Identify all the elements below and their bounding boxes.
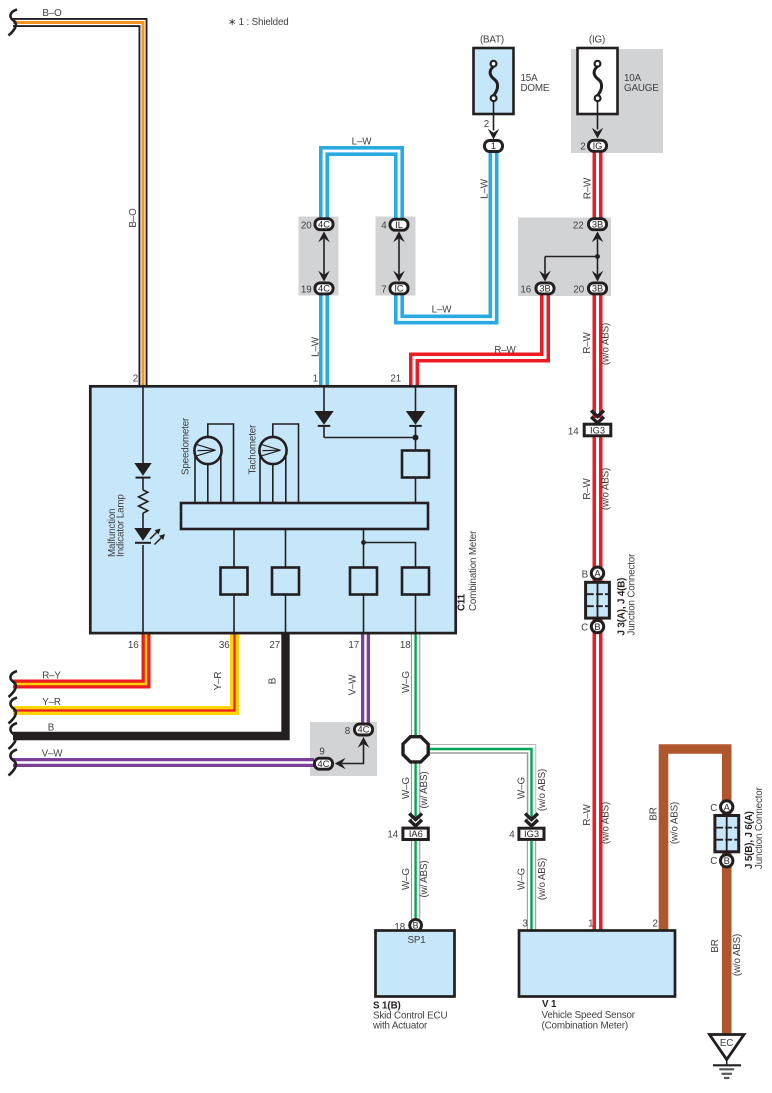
svg-text:14: 14 — [387, 830, 398, 841]
svg-text:L–W: L–W — [311, 336, 322, 357]
svg-text:B: B — [48, 723, 55, 734]
svg-text:∗ 1 : Shielded: ∗ 1 : Shielded — [228, 17, 289, 28]
svg-text:3B: 3B — [592, 284, 603, 294]
svg-text:Combination Meter: Combination Meter — [468, 530, 479, 611]
svg-text:Indicator Lamp: Indicator Lamp — [116, 494, 127, 557]
svg-text:A: A — [724, 802, 731, 812]
svg-text:IA6: IA6 — [409, 829, 423, 839]
svg-text:IC: IC — [394, 284, 404, 294]
svg-text:DOME: DOME — [521, 83, 550, 94]
svg-text:3B: 3B — [539, 284, 550, 294]
svg-text:Y–R: Y–R — [213, 672, 224, 691]
svg-text:C11: C11 — [457, 593, 468, 611]
svg-text:21: 21 — [390, 374, 401, 385]
svg-text:20: 20 — [301, 220, 312, 231]
svg-text:(Combination Meter): (Combination Meter) — [542, 1021, 628, 1032]
svg-text:(BAT): (BAT) — [480, 35, 504, 46]
svg-text:B: B — [582, 569, 589, 580]
svg-text:R–W: R–W — [582, 477, 593, 499]
svg-text:B–O: B–O — [42, 8, 62, 19]
svg-text:IG: IG — [593, 141, 603, 151]
svg-text:7: 7 — [381, 285, 386, 296]
svg-text:SP1: SP1 — [407, 935, 425, 946]
svg-text:4C: 4C — [318, 219, 330, 229]
svg-text:2: 2 — [652, 919, 657, 930]
svg-text:(w/ ABS): (w/ ABS) — [419, 772, 430, 809]
svg-text:36: 36 — [219, 640, 230, 651]
svg-text:4: 4 — [509, 830, 515, 841]
svg-text:1: 1 — [313, 374, 318, 385]
svg-text:B: B — [724, 856, 730, 866]
svg-text:1: 1 — [588, 919, 593, 930]
svg-text:L–W: L–W — [352, 137, 373, 148]
svg-text:R–Y: R–Y — [42, 671, 61, 682]
svg-text:GAUGE: GAUGE — [624, 83, 659, 94]
svg-text:27: 27 — [269, 640, 280, 651]
svg-text:R–W: R–W — [582, 803, 593, 825]
svg-text:L–W: L–W — [480, 178, 491, 199]
svg-text:3B: 3B — [592, 219, 603, 229]
svg-text:9: 9 — [319, 747, 324, 758]
svg-text:W–G: W–G — [401, 671, 412, 693]
svg-text:L–W: L–W — [432, 305, 453, 316]
svg-text:3: 3 — [522, 919, 528, 930]
svg-text:C: C — [710, 856, 717, 867]
svg-text:B: B — [268, 677, 279, 684]
svg-text:1: 1 — [491, 141, 496, 151]
svg-text:20: 20 — [573, 285, 584, 296]
svg-text:2: 2 — [133, 374, 138, 385]
svg-text:Speedometer: Speedometer — [181, 417, 192, 475]
svg-text:R–W: R–W — [494, 345, 516, 356]
svg-text:Y–R: Y–R — [42, 697, 61, 708]
svg-text:B: B — [413, 921, 419, 931]
svg-text:IG3: IG3 — [590, 425, 605, 435]
svg-text:19: 19 — [301, 285, 312, 296]
svg-text:Vehicle Speed Sensor: Vehicle Speed Sensor — [542, 1010, 636, 1021]
svg-text:2: 2 — [484, 119, 489, 130]
svg-text:16: 16 — [128, 640, 139, 651]
svg-text:IG3: IG3 — [524, 829, 539, 839]
svg-text:(IG): (IG) — [589, 35, 605, 46]
svg-text:W–G: W–G — [401, 868, 412, 890]
svg-text:B–O: B–O — [128, 208, 139, 228]
svg-text:EC: EC — [720, 1038, 733, 1049]
svg-text:R–W: R–W — [582, 331, 593, 353]
svg-text:4C: 4C — [318, 284, 330, 294]
svg-text:4C: 4C — [318, 759, 330, 769]
svg-text:Junction Connector: Junction Connector — [754, 786, 765, 869]
svg-text:18: 18 — [400, 640, 411, 651]
svg-text:W–G: W–G — [517, 777, 528, 799]
svg-text:4: 4 — [381, 221, 387, 232]
svg-text:(w/o ABS): (w/o ABS) — [732, 934, 743, 976]
svg-text:16: 16 — [520, 285, 531, 296]
svg-text:V–W: V–W — [42, 749, 64, 760]
svg-text:A: A — [594, 569, 601, 579]
svg-text:W–G: W–G — [517, 868, 528, 890]
svg-text:C: C — [581, 623, 588, 634]
svg-text:14: 14 — [568, 427, 579, 438]
svg-text:BR: BR — [649, 807, 660, 820]
svg-text:(w/o ABS): (w/o ABS) — [670, 802, 681, 844]
svg-text:(w/o ABS): (w/o ABS) — [601, 802, 612, 844]
svg-text:4C: 4C — [358, 725, 370, 735]
svg-text:V–W: V–W — [348, 674, 359, 696]
svg-text:(w/o ABS): (w/o ABS) — [537, 769, 548, 811]
svg-text:8: 8 — [345, 726, 351, 737]
svg-text:V 1: V 1 — [542, 999, 557, 1010]
svg-text:IL: IL — [395, 220, 403, 230]
svg-text:R–W: R–W — [583, 177, 594, 199]
svg-text:Junction Connector: Junction Connector — [627, 553, 638, 636]
svg-text:17: 17 — [348, 640, 359, 651]
svg-text:22: 22 — [573, 220, 584, 231]
svg-text:(w/o ABS): (w/o ABS) — [601, 468, 612, 510]
svg-text:2: 2 — [580, 142, 585, 153]
svg-text:(w/o ABS): (w/o ABS) — [601, 323, 612, 365]
svg-text:BR: BR — [710, 939, 721, 952]
svg-text:(w/ ABS): (w/ ABS) — [419, 861, 430, 898]
svg-text:18: 18 — [394, 922, 405, 933]
svg-text:W–G: W–G — [401, 777, 412, 799]
svg-text:C: C — [710, 803, 717, 814]
svg-text:B: B — [594, 622, 600, 632]
svg-text:(w/o ABS): (w/o ABS) — [537, 858, 548, 900]
svg-text:Tachometer: Tachometer — [248, 424, 259, 475]
svg-text:with Actuator: with Actuator — [372, 1021, 428, 1032]
